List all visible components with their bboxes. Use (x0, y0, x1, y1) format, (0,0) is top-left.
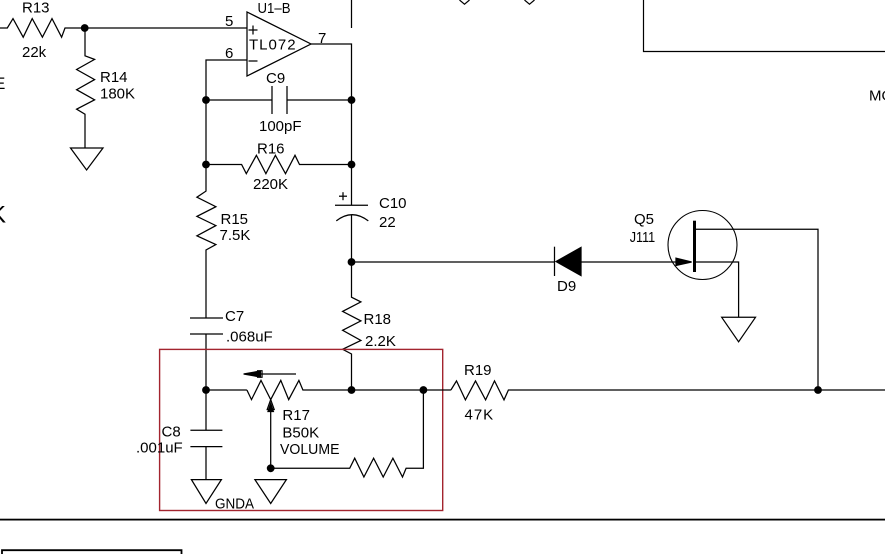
op-amp U1-B (247, 12, 311, 76)
junction at C8 node (202, 386, 210, 394)
junction left of C9 (202, 96, 210, 104)
svg-text:B50K: B50K (282, 425, 319, 442)
junction at C10/R18/D9 node (348, 258, 356, 266)
svg-text:D9: D9 (557, 278, 576, 295)
svg-text:22: 22 (379, 214, 396, 231)
svg-text:R17: R17 (282, 407, 310, 424)
junction right bus at R19 wire (814, 386, 822, 394)
bottom separator line (0, 519, 885, 521)
junction wiper bottom (267, 464, 275, 472)
junction right of C9 (348, 96, 356, 104)
capacitor C10 polarized (335, 165, 368, 263)
svg-text:R18: R18 (364, 311, 392, 328)
cut-off ground tip 2 at top edge (525, 0, 535, 4)
svg-text:R15: R15 (221, 211, 249, 228)
ground below R14 (71, 148, 104, 170)
wire right C9 to R16 (351, 100, 353, 165)
svg-text:.001uF: .001uF (136, 440, 183, 457)
svg-text:Q5: Q5 (634, 211, 654, 228)
wire pin 6 feedback (206, 60, 247, 100)
svg-text:.068uF: .068uF (226, 329, 273, 346)
junction left of R16 (202, 161, 210, 169)
junction R18 bottom (348, 386, 356, 394)
resistor R16 (206, 155, 352, 173)
ground GNDA below C8 (191, 480, 221, 504)
svg-text:J111: J111 (630, 229, 656, 246)
svg-text:2.2K: 2.2K (365, 333, 396, 350)
svg-text:K: K (0, 202, 6, 229)
svg-text:5: 5 (225, 13, 233, 30)
wire Q5 source (695, 262, 739, 317)
junction right of R16 (348, 161, 356, 169)
capacitor C9 (206, 86, 352, 114)
resistor R14 (77, 28, 95, 148)
svg-text:C8: C8 (162, 423, 181, 440)
resistor R19 (451, 381, 885, 400)
bottom left title box (2, 550, 182, 554)
svg-text:C7: C7 (225, 308, 244, 325)
ground below Q5 (722, 317, 756, 342)
R17 lower track resistor (271, 390, 424, 477)
wire left C9 to R16 (205, 100, 207, 165)
cut-off ground tip 1 at top edge (460, 0, 470, 4)
potentiometer R17 track (247, 380, 352, 399)
svg-text:GNDA: GNDA (215, 496, 254, 513)
svg-text:220K: 220K (253, 176, 288, 193)
svg-text:C9: C9 (266, 70, 285, 87)
svg-text:U1–B: U1–B (258, 0, 291, 17)
wire stub to top edge (351, 0, 353, 28)
svg-text:7.5K: 7.5K (220, 227, 251, 244)
ground below wiper (255, 480, 287, 504)
R17 rotation arrow (244, 371, 296, 378)
wire node A to op-amp pin 5 (85, 27, 247, 29)
wire pot to R19 (352, 389, 451, 391)
diode D9 (555, 247, 691, 276)
svg-text:22k: 22k (22, 44, 47, 61)
top right box outline (644, 0, 885, 52)
capacitor C8 (190, 390, 222, 480)
svg-text:R19: R19 (464, 362, 492, 379)
wire Q5 drain to right bus (695, 229, 819, 390)
capacitor C7 (190, 318, 223, 390)
svg-text:MO: MO (869, 88, 885, 105)
R17 wiper arrow (267, 400, 274, 469)
svg-text:TL072: TL072 (249, 37, 297, 54)
wire node to diode D9 (352, 261, 555, 263)
red highlight box (160, 349, 443, 510)
svg-text:R13: R13 (22, 0, 50, 17)
junction node A (81, 24, 89, 32)
resistor R18 (343, 262, 361, 390)
svg-text:R16: R16 (257, 141, 285, 158)
svg-text:180K: 180K (100, 86, 135, 103)
junction pot right terminal (420, 386, 428, 394)
wire pin 7 output (311, 44, 352, 100)
svg-text:100pF: 100pF (259, 118, 302, 135)
svg-text:R14: R14 (100, 69, 128, 86)
svg-text:C10: C10 (379, 195, 407, 212)
resistor R15 (197, 165, 216, 319)
wire C8 node to pot (206, 389, 247, 391)
svg-text:VOLUME: VOLUME (280, 441, 340, 458)
svg-text:47K: 47K (465, 407, 495, 424)
transistor Q5 JFET (668, 211, 737, 280)
resistor R13 (0, 19, 85, 38)
svg-text:E: E (0, 74, 5, 93)
